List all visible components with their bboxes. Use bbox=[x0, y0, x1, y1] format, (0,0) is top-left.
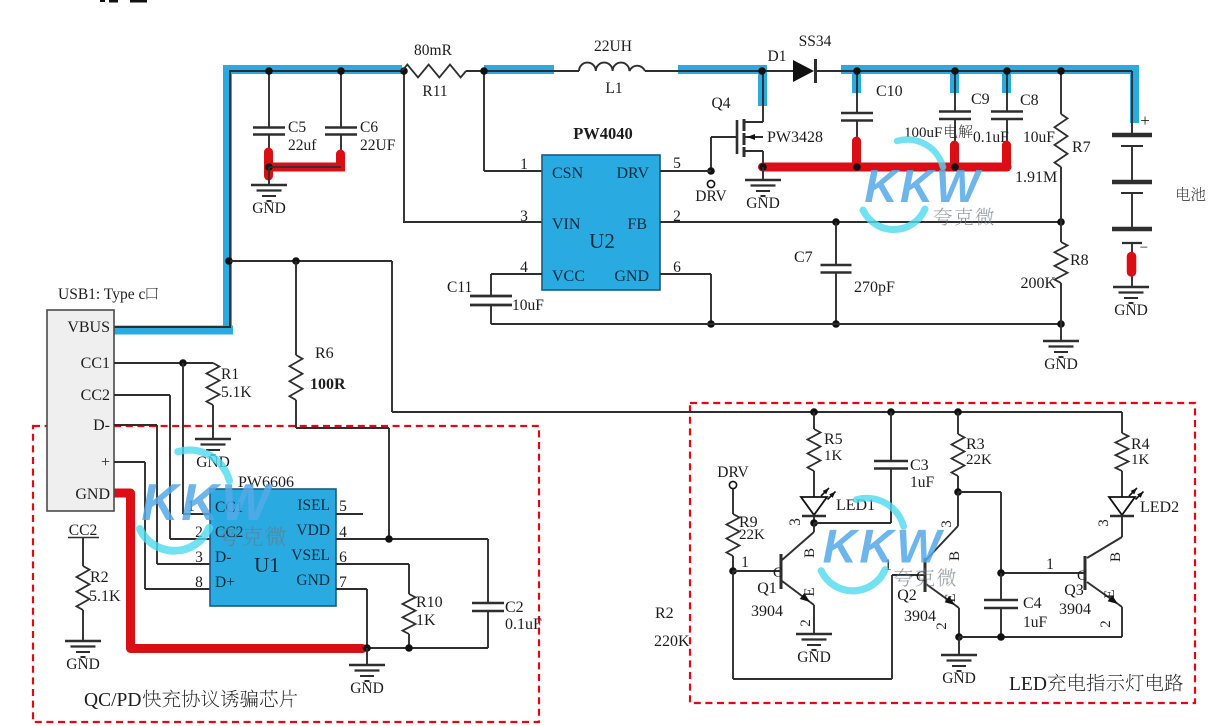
svg-text:1K: 1K bbox=[416, 612, 436, 629]
svg-text:C8: C8 bbox=[1020, 92, 1039, 109]
svg-text:22K: 22K bbox=[739, 527, 765, 543]
svg-text:220K: 220K bbox=[654, 633, 690, 650]
svg-text:C4: C4 bbox=[1023, 595, 1042, 612]
svg-text:KKW: KKW bbox=[141, 473, 274, 531]
svg-text:1K: 1K bbox=[1131, 452, 1150, 468]
wire bottom rail bbox=[491, 323, 1061, 325]
svg-text:D-: D- bbox=[93, 417, 110, 434]
svg-text:PW3428: PW3428 bbox=[767, 129, 823, 146]
svg-text:B: B bbox=[802, 548, 818, 558]
svg-text:CC1: CC1 bbox=[81, 355, 110, 372]
svg-text:100R: 100R bbox=[310, 376, 346, 393]
svg-text:R11: R11 bbox=[422, 83, 447, 100]
node CC1 junction bbox=[179, 359, 187, 367]
led LED2 bbox=[1109, 497, 1135, 515]
svg-text:E: E bbox=[1102, 589, 1118, 598]
red highlight C5-C6 ground link bbox=[264, 163, 345, 172]
svg-text:3904: 3904 bbox=[1059, 601, 1091, 618]
svg-text:E: E bbox=[802, 587, 818, 596]
inductor L1 22UH bbox=[579, 63, 645, 71]
svg-text:E: E bbox=[943, 593, 959, 602]
blue highlight rail after R11 bbox=[484, 65, 554, 74]
node U1 gnd junction bbox=[363, 644, 371, 652]
blue highlight battery drop bbox=[1130, 66, 1139, 124]
svg-text:CSN: CSN bbox=[552, 165, 584, 182]
node C7 bottom junction bbox=[832, 320, 840, 328]
svg-text:SS34: SS34 bbox=[799, 33, 832, 50]
svg-text:R6: R6 bbox=[315, 345, 334, 362]
watermark KKW led area bbox=[821, 498, 945, 591]
svg-text:C11: C11 bbox=[447, 279, 472, 296]
svg-text:D+: D+ bbox=[215, 574, 235, 591]
resistor R2 5.1K bbox=[82, 538, 84, 567]
wire top rail segment 1 bbox=[229, 70, 402, 72]
svg-text:1: 1 bbox=[741, 554, 749, 571]
svg-text:3: 3 bbox=[195, 549, 203, 566]
svg-text:D1: D1 bbox=[768, 48, 787, 65]
node Q2 emitter junction bbox=[955, 633, 963, 641]
wire VBUS riser bbox=[229, 72, 231, 327]
svg-text:D-: D- bbox=[215, 549, 231, 566]
wire Q2 emitter bottom link bbox=[959, 636, 1122, 638]
svg-text:GND: GND bbox=[942, 670, 976, 687]
red highlight Q4 source ground bus bbox=[763, 163, 1008, 172]
dashed box: LED charge indicator section bbox=[690, 403, 1195, 703]
svg-text:R5: R5 bbox=[824, 431, 843, 448]
blue highlight vertical riser bbox=[223, 65, 232, 335]
wire U1 bottom gnd link bbox=[362, 647, 488, 649]
svg-text:KKW: KKW bbox=[823, 520, 946, 573]
blue highlight Q4 drain stub bbox=[758, 66, 767, 106]
svg-text:270pF: 270pF bbox=[854, 279, 895, 296]
resistor R11 80mR bbox=[402, 65, 466, 78]
svg-text:Q1: Q1 bbox=[757, 580, 777, 597]
node C4 top junction bbox=[997, 569, 1005, 577]
node VDD junction bbox=[385, 535, 393, 543]
svg-text:3: 3 bbox=[520, 208, 528, 225]
resistor R4 1K bbox=[1121, 412, 1123, 433]
watermark KKW left bbox=[140, 450, 274, 551]
capacitor C10 100uF bbox=[856, 71, 858, 113]
dashed box: QC/PD protocol section bbox=[33, 426, 539, 722]
svg-text:DRV: DRV bbox=[695, 188, 727, 205]
svg-text:U2: U2 bbox=[589, 229, 615, 253]
svg-text:R2: R2 bbox=[90, 569, 109, 586]
blue highlight C8 stub bbox=[1002, 66, 1011, 93]
ground symbol Q2 bbox=[958, 637, 960, 655]
label C10 dianjie bbox=[945, 124, 973, 138]
wire CSN pin1 feed bbox=[483, 71, 485, 171]
svg-text:2: 2 bbox=[934, 622, 950, 630]
svg-text:C2: C2 bbox=[505, 599, 524, 616]
node CSN feed on rail bbox=[480, 67, 488, 75]
transistor Q3 3904 bbox=[1121, 517, 1123, 537]
red highlight C10 ground stub bbox=[852, 141, 861, 167]
svg-text:CC2: CC2 bbox=[69, 522, 97, 539]
svg-text:GND: GND bbox=[350, 680, 384, 697]
red highlight C5 ground stub bbox=[264, 152, 273, 176]
node VBUS riser junction bbox=[225, 257, 233, 265]
svg-text:CC2: CC2 bbox=[81, 387, 110, 404]
svg-text:1: 1 bbox=[1046, 556, 1054, 573]
capacitor C3 1uF bbox=[890, 412, 892, 461]
svg-text:2: 2 bbox=[798, 619, 814, 627]
svg-text:GND: GND bbox=[252, 200, 286, 217]
svg-text:+: + bbox=[1140, 111, 1150, 130]
svg-text:R4: R4 bbox=[1131, 436, 1150, 453]
ground symbol Q1 bbox=[796, 633, 832, 635]
ground symbol R1 bbox=[195, 438, 231, 440]
ground symbol R2 bbox=[65, 640, 101, 642]
svg-text:B: B bbox=[1108, 552, 1124, 562]
svg-text:R8: R8 bbox=[1070, 252, 1089, 269]
red highlight C9 ground stub bbox=[950, 145, 959, 167]
capacitor C8 10uF bbox=[1006, 71, 1008, 112]
wire Q1 base cross-couple loop bbox=[732, 571, 734, 679]
svg-text:U1: U1 bbox=[254, 553, 280, 577]
blue highlight VBUS wire bbox=[111, 326, 233, 335]
svg-text:80mR: 80mR bbox=[414, 42, 453, 59]
node C5 ground junction bbox=[265, 163, 273, 171]
capacitor C6 22UF bbox=[340, 72, 342, 127]
transistor Q1 3904 bbox=[733, 570, 781, 572]
capacitor C9 0.1uF bbox=[954, 71, 956, 112]
wire VDD pin4 to C2 bbox=[336, 538, 488, 540]
svg-text:3904: 3904 bbox=[751, 603, 783, 620]
svg-text:R7: R7 bbox=[1072, 139, 1091, 156]
svg-text:VBUS: VBUS bbox=[67, 319, 110, 336]
svg-text:C3: C3 bbox=[910, 457, 929, 474]
resistor R5 1K bbox=[813, 412, 815, 429]
svg-text:22K: 22K bbox=[966, 452, 992, 468]
resistor R9 22K bbox=[732, 489, 734, 514]
svg-text:C: C bbox=[773, 565, 783, 581]
svg-text:C6: C6 bbox=[360, 119, 378, 136]
node C9 ground junction bbox=[951, 163, 959, 171]
svg-text:GND: GND bbox=[75, 486, 110, 503]
svg-text:Q3: Q3 bbox=[1064, 582, 1084, 599]
capacitor C4 1uF bbox=[1000, 573, 1002, 600]
svg-text:ISEL: ISEL bbox=[297, 497, 330, 514]
connector USB1 Type-C bbox=[47, 310, 114, 511]
red highlight C6 ground stub bbox=[336, 154, 345, 166]
svg-text:USB1: Type c: USB1: Type c bbox=[58, 286, 145, 303]
wire U2 GND pin6 bbox=[660, 273, 711, 275]
title remnant top left bbox=[100, 0, 105, 2]
node LED1 cathode junction bbox=[810, 519, 818, 527]
ground symbol battery bbox=[1113, 286, 1149, 288]
wire top rail segment 4 (D1 to battery) bbox=[816, 70, 1132, 72]
node VIN feed on rail bbox=[400, 67, 408, 75]
wire D+ to U1 pin8 bbox=[114, 461, 145, 463]
diode D1 SS34 bbox=[793, 60, 814, 82]
resistor R6 100R bbox=[295, 261, 297, 355]
label usb type-c kou bbox=[147, 288, 158, 300]
svg-text:2: 2 bbox=[1098, 620, 1114, 628]
svg-text:10uF: 10uF bbox=[512, 297, 544, 314]
wire FB pin2 bbox=[660, 221, 1061, 223]
blue highlight top rail left bbox=[223, 65, 402, 74]
node R6 top junction bbox=[292, 257, 300, 265]
wire U1 GND pin7 bbox=[336, 588, 367, 590]
ground symbol below Q4 bbox=[762, 167, 764, 180]
wire VSEL pin6 to R10 bbox=[336, 563, 409, 565]
resistor R1 5.1K bbox=[207, 363, 220, 405]
svg-text:R10: R10 bbox=[416, 594, 443, 611]
svg-text:5: 5 bbox=[673, 155, 681, 172]
svg-text:GND: GND bbox=[66, 656, 100, 673]
svg-text:C9: C9 bbox=[971, 91, 990, 108]
svg-text:GND: GND bbox=[746, 195, 780, 212]
blue highlight rail after L1 bbox=[678, 65, 767, 74]
svg-text:0.1uF: 0.1uF bbox=[505, 616, 542, 633]
wire D- to U1 pin3 bbox=[114, 424, 157, 426]
watermark KKW center bbox=[863, 140, 983, 230]
node bottom rail right junction bbox=[1057, 320, 1065, 328]
node FB-R7R8 junction bbox=[1057, 218, 1065, 226]
svg-text:22UH: 22UH bbox=[594, 38, 632, 55]
svg-text:DRV: DRV bbox=[717, 464, 749, 481]
node C4 bottom junction bbox=[997, 633, 1005, 641]
node U2 gnd junction on bottom rail bbox=[707, 320, 715, 328]
led LED1 bbox=[801, 497, 827, 515]
svg-text:PW4040: PW4040 bbox=[573, 124, 633, 143]
svg-text:8: 8 bbox=[195, 574, 203, 591]
capacitor C2 0.1uF bbox=[487, 539, 489, 603]
svg-text:QC/PD: QC/PD bbox=[84, 690, 141, 711]
svg-text:VSEL: VSEL bbox=[291, 547, 330, 564]
svg-text:GND: GND bbox=[296, 572, 330, 589]
red highlight C8 ground stub bbox=[1002, 145, 1011, 167]
svg-text:GND: GND bbox=[1044, 356, 1078, 373]
resistor R7 1.91M bbox=[1060, 71, 1062, 114]
capacitor C11 10uF bbox=[491, 273, 542, 275]
svg-text:C5: C5 bbox=[288, 119, 306, 136]
wire VBUS horizontal bbox=[114, 326, 231, 328]
svg-text:C10: C10 bbox=[876, 83, 903, 100]
label battery chinese bbox=[1177, 187, 1205, 201]
svg-text:5: 5 bbox=[339, 498, 347, 515]
blue highlight rail after D1 bbox=[841, 65, 1139, 74]
terminal DRV bbox=[707, 167, 715, 175]
wire CC1 to U1 pin1 bbox=[182, 363, 184, 514]
svg-text:B: B bbox=[947, 551, 963, 561]
node R5 top junction bbox=[810, 408, 818, 416]
svg-text:DRV: DRV bbox=[617, 165, 650, 182]
blue highlight C9 stub bbox=[950, 66, 959, 93]
svg-text:GND: GND bbox=[1114, 302, 1148, 319]
transistor Q4 PW3428 mosfet bbox=[762, 71, 764, 122]
wire ISEL stub pin5 bbox=[336, 513, 363, 515]
wire VIN feed vertical bbox=[403, 71, 405, 222]
node C3 top junction bbox=[887, 408, 895, 416]
wire stubs covered by red highlights bbox=[268, 135, 270, 167]
svg-text:Q2: Q2 bbox=[897, 587, 917, 604]
svg-text:3: 3 bbox=[787, 518, 804, 526]
svg-text:VCC: VCC bbox=[552, 268, 585, 285]
svg-text:0.1uF: 0.1uF bbox=[973, 129, 1009, 146]
ground symbol U1 bbox=[366, 648, 368, 665]
svg-text:R3: R3 bbox=[966, 436, 985, 453]
resistor R10 1K bbox=[403, 594, 416, 634]
svg-text:1: 1 bbox=[520, 156, 528, 173]
svg-text:C7: C7 bbox=[794, 249, 813, 266]
svg-text:VIN: VIN bbox=[552, 216, 581, 233]
blue highlight C10 stub bbox=[852, 66, 861, 93]
chip U1 PW6606 bbox=[210, 489, 336, 606]
node C10 ground junction bbox=[853, 163, 861, 171]
svg-text:KKW: KKW bbox=[864, 160, 982, 212]
svg-text:1uF: 1uF bbox=[1023, 614, 1048, 631]
svg-text:Q4: Q4 bbox=[712, 95, 731, 112]
capacitor C5 22uf bbox=[268, 72, 270, 127]
wire C5-C6 ground link core bbox=[269, 166, 341, 168]
svg-text:GND: GND bbox=[614, 268, 649, 285]
svg-text:R1: R1 bbox=[221, 366, 239, 383]
red highlight USB GND path bbox=[112, 493, 363, 649]
node R3 top junction bbox=[954, 408, 962, 416]
capacitor C7 270pF bbox=[835, 222, 837, 265]
svg-text:1K: 1K bbox=[824, 448, 843, 464]
wire CC1 bbox=[114, 362, 213, 364]
svg-text:VDD: VDD bbox=[296, 522, 330, 539]
node R3 bottom junction bbox=[954, 488, 962, 496]
resistor R8 200K bbox=[1055, 242, 1068, 283]
svg-text:L1: L1 bbox=[605, 80, 622, 97]
svg-text:GND: GND bbox=[797, 649, 831, 666]
svg-text:1.91M: 1.91M bbox=[1015, 169, 1057, 186]
svg-text:5.1K: 5.1K bbox=[89, 588, 121, 605]
node Q1 base junction bbox=[729, 567, 737, 575]
terminal DRV led circuit bbox=[729, 481, 736, 488]
svg-text:LED: LED bbox=[1009, 674, 1047, 695]
svg-text:22UF: 22UF bbox=[360, 137, 396, 154]
svg-text:LED2: LED2 bbox=[1140, 499, 1179, 516]
transistor Q2 3904 bbox=[924, 558, 927, 592]
wire CC2 to U1 pin2 bbox=[114, 394, 170, 396]
node Q4 source ground junction bbox=[759, 163, 767, 171]
svg-text:1uF: 1uF bbox=[910, 474, 935, 491]
wire top rail segment 3 (L1 to D1) bbox=[645, 70, 793, 72]
wire node A to R6/LED feed bbox=[230, 260, 392, 262]
svg-text:−: − bbox=[1140, 240, 1148, 256]
svg-text:10uF: 10uF bbox=[1023, 129, 1055, 146]
svg-text:FB: FB bbox=[627, 216, 647, 233]
ground symbol bottom rail bbox=[1060, 324, 1062, 341]
wire DRV pin5 bbox=[660, 170, 711, 172]
wire top rail segment 2 (R11 to L1) bbox=[466, 70, 579, 72]
svg-text:22uf: 22uf bbox=[288, 137, 317, 154]
svg-text:3904: 3904 bbox=[904, 608, 936, 625]
svg-text:+: + bbox=[101, 454, 110, 471]
svg-text:5.1K: 5.1K bbox=[221, 384, 252, 401]
resistor R3 22K bbox=[957, 412, 959, 434]
svg-text:R2: R2 bbox=[655, 605, 674, 622]
wire R3 to Q3 base / C4 bbox=[958, 491, 1001, 493]
red highlight battery negative blob bbox=[1127, 257, 1137, 273]
chip U2 PW4040 bbox=[542, 155, 660, 290]
svg-text:3: 3 bbox=[1096, 519, 1112, 527]
svg-text:200K: 200K bbox=[1020, 275, 1056, 292]
node R10 bottom junction bbox=[405, 644, 413, 652]
ground symbol below C5 bbox=[268, 167, 270, 185]
battery cell stack bbox=[1131, 71, 1133, 135]
node FB-C7 junction bbox=[832, 218, 840, 226]
